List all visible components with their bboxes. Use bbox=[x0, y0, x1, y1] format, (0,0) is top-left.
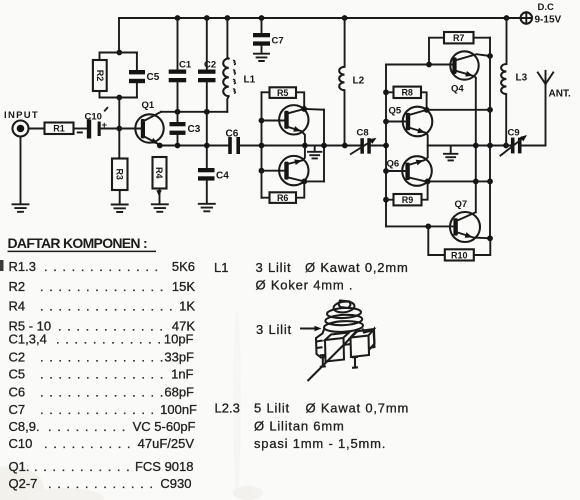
svg-text:.............: ............. bbox=[40, 402, 160, 417]
svg-text:Q6: Q6 bbox=[387, 159, 400, 170]
parts list row C5 bbox=[9, 367, 194, 382]
svg-text:47uF/25V: 47uF/25V bbox=[138, 436, 195, 451]
svg-text:.........: ......... bbox=[48, 419, 131, 434]
resistor R2 bbox=[93, 60, 107, 91]
svg-text:............: ............ bbox=[48, 476, 159, 491]
ground under C4 bbox=[199, 204, 215, 212]
svg-text:R4: R4 bbox=[154, 167, 164, 179]
svg-text:100nF: 100nF bbox=[160, 402, 197, 417]
svg-text:C9: C9 bbox=[508, 128, 520, 139]
svg-text:Q5: Q5 bbox=[389, 106, 402, 117]
capacitor C1 bbox=[169, 18, 192, 112]
wire C10/base node drop bbox=[118, 98, 120, 159]
resistor R8 bbox=[386, 87, 427, 110]
svg-text:C1: C1 bbox=[179, 60, 192, 71]
svg-text:..............: .............. bbox=[40, 367, 169, 382]
wire middle signal row bbox=[262, 145, 361, 147]
svg-text:C2: C2 bbox=[204, 60, 216, 71]
parts list row C1,3,4 bbox=[9, 332, 194, 347]
wire output row right block bbox=[428, 145, 511, 147]
svg-text:R10: R10 bbox=[451, 250, 468, 260]
transistor Q1 bbox=[135, 100, 163, 145]
parts list row C8,9 bbox=[9, 419, 196, 434]
ground under R3 bbox=[112, 205, 128, 213]
svg-text:Ø Kawat 0,7mm: Ø Kawat 0,7mm bbox=[306, 401, 410, 416]
wire right block left vertical bbox=[385, 65, 387, 227]
wire rail drop to R2/C5 node bbox=[118, 18, 120, 53]
note L2.3 winding bbox=[215, 401, 410, 416]
svg-text:..............: .............. bbox=[40, 385, 169, 400]
node signal row junctions left bbox=[157, 143, 210, 149]
svg-text:5K6: 5K6 bbox=[172, 259, 195, 274]
svg-text:R2: R2 bbox=[9, 279, 26, 294]
svg-text:Q7: Q7 bbox=[455, 199, 468, 210]
resistor R1 bbox=[45, 123, 74, 135]
capacitor C10 electrolytic bbox=[77, 108, 108, 139]
svg-text:15K: 15K bbox=[172, 279, 195, 294]
ground under C7 bbox=[254, 54, 269, 61]
wire Q4 base line bbox=[386, 64, 453, 66]
wire R3 to ground bbox=[119, 190, 121, 204]
svg-text:Q1: Q1 bbox=[142, 100, 155, 111]
note L2.3 diameter bbox=[254, 419, 345, 434]
svg-text:R3: R3 bbox=[115, 168, 125, 180]
svg-text:Ø Kawat 0,2mm: Ø Kawat 0,2mm bbox=[305, 260, 409, 275]
parts list row Q1 bbox=[9, 459, 194, 474]
svg-text:3 Lilit: 3 Lilit bbox=[256, 322, 292, 337]
note 3 Lilit pointer bbox=[256, 322, 322, 337]
svg-text:Q2-7: Q2-7 bbox=[9, 476, 38, 491]
wire jack stem to ground bbox=[20, 137, 22, 205]
resistor R10 bbox=[428, 226, 490, 260]
capacitor C8 variable bbox=[351, 128, 386, 155]
svg-text:C5: C5 bbox=[147, 72, 160, 83]
wire R2/C5 parallel loop bbox=[100, 53, 138, 98]
node right block left vertical junctions bbox=[383, 89, 389, 202]
svg-text:R9: R9 bbox=[402, 195, 414, 205]
wire Q1 collector row bbox=[161, 111, 227, 113]
ground right block bbox=[444, 146, 457, 161]
antenna ANT bbox=[538, 71, 571, 146]
note L2.3 spacing bbox=[254, 436, 386, 451]
wire Q1 emitter to signal row bbox=[159, 144, 161, 147]
svg-text:C8,9.: C8,9. bbox=[9, 419, 40, 434]
svg-text:spasi 1mm - 1,5mm.: spasi 1mm - 1,5mm. bbox=[254, 436, 386, 451]
svg-text:C6: C6 bbox=[226, 129, 239, 140]
svg-text:R2: R2 bbox=[95, 70, 105, 82]
svg-text:9-15V: 9-15V bbox=[535, 15, 562, 26]
svg-text:FCS 9018: FCS 9018 bbox=[135, 459, 194, 474]
inductor L1 bbox=[223, 18, 255, 112]
wire jack to R1 bbox=[29, 128, 45, 130]
svg-text:C7: C7 bbox=[9, 402, 26, 417]
svg-text:3 Lilit: 3 Lilit bbox=[256, 260, 292, 275]
node middle row junctions bbox=[302, 143, 348, 149]
terminal D.C supply bbox=[507, 2, 562, 26]
svg-text:..............: .............. bbox=[40, 279, 169, 294]
note L1 winding bbox=[214, 260, 409, 275]
parts list row R1.3 bbox=[9, 259, 196, 274]
svg-text:L1: L1 bbox=[214, 260, 228, 275]
capacitor C9 variable bbox=[501, 128, 546, 156]
transistor Q6 bbox=[386, 146, 490, 186]
svg-text:C930: C930 bbox=[160, 476, 191, 491]
parts list row C2 bbox=[9, 350, 195, 365]
svg-text:R7: R7 bbox=[453, 33, 465, 43]
node R2/C5 top and bottom junctions bbox=[116, 50, 122, 101]
wire main signal row left bbox=[160, 145, 228, 147]
note L1 koker bbox=[256, 278, 354, 293]
transistor Q2 bbox=[262, 105, 325, 145]
ground under R4 bbox=[152, 204, 168, 212]
resistor R6 bbox=[262, 181, 305, 203]
svg-text:Ø Koker 4mm .: Ø Koker 4mm . bbox=[256, 278, 354, 293]
parts list row C6 bbox=[9, 385, 195, 400]
svg-text:Q4: Q4 bbox=[451, 84, 464, 95]
svg-text:D.C: D.C bbox=[538, 2, 555, 13]
parts list row C7 bbox=[9, 402, 198, 417]
node left vertical junctions bbox=[259, 118, 265, 174]
capacitor C6 bbox=[226, 129, 262, 155]
inductor L3 bbox=[501, 18, 528, 146]
wire R4 to ground with blob bbox=[156, 189, 162, 205]
svg-text:C1,3,4: C1,3,4 bbox=[9, 332, 47, 347]
ground under input jack bbox=[13, 204, 29, 212]
scan smudges bbox=[0, 310, 263, 500]
svg-text:C3: C3 bbox=[188, 124, 201, 135]
svg-text:...........: ........... bbox=[34, 459, 135, 474]
parts list row R4 bbox=[9, 299, 196, 314]
svg-text:VC 5-60pF: VC 5-60pF bbox=[133, 419, 196, 434]
inductor L2 bbox=[339, 18, 364, 146]
wire R1 to C10 bbox=[74, 128, 87, 130]
heading DAFTAR KOMPONEN bbox=[8, 235, 157, 251]
parts list row R5-10 bbox=[9, 319, 196, 334]
svg-text:...............: ............... bbox=[40, 299, 178, 314]
ground middle block bbox=[308, 146, 321, 159]
wire top supply rail bbox=[119, 17, 521, 19]
svg-text:Q1.: Q1. bbox=[9, 459, 30, 474]
svg-text:1K: 1K bbox=[179, 299, 195, 314]
svg-text:33pF: 33pF bbox=[164, 350, 194, 365]
svg-text:............: ............ bbox=[56, 332, 167, 347]
svg-text:68pF: 68pF bbox=[164, 385, 194, 400]
svg-text:R6: R6 bbox=[277, 193, 289, 203]
wire C10 to Q1 base bbox=[101, 128, 142, 130]
capacitor C4 bbox=[198, 146, 229, 204]
node rail junction dots bbox=[175, 15, 510, 21]
node INPUT jack bbox=[4, 110, 39, 137]
svg-text:C7: C7 bbox=[272, 36, 284, 47]
svg-text:C10: C10 bbox=[9, 436, 33, 451]
svg-text:5 Lilit: 5 Lilit bbox=[254, 401, 290, 416]
svg-text:R1.3: R1.3 bbox=[9, 259, 36, 274]
node collector row junctions bbox=[175, 109, 210, 115]
wire right block big vertical bbox=[489, 38, 491, 239]
svg-text:..............: .............. bbox=[40, 350, 169, 365]
svg-text:ANT.: ANT. bbox=[549, 89, 571, 100]
node Q6 collector row junctions bbox=[425, 179, 493, 185]
svg-text:L1: L1 bbox=[244, 75, 256, 86]
wire middle block right vertical bbox=[323, 110, 325, 182]
wire Q7 base line bbox=[386, 224, 454, 230]
transistor Q3 bbox=[262, 146, 325, 185]
svg-text:C8: C8 bbox=[357, 128, 369, 139]
svg-text:DAFTAR KOMPONEN :: DAFTAR KOMPONEN : bbox=[8, 235, 148, 251]
svg-text:C5: C5 bbox=[9, 367, 26, 382]
svg-text:L2.3: L2.3 bbox=[215, 401, 240, 416]
capacitor C3 bbox=[170, 112, 201, 146]
svg-text:R1: R1 bbox=[53, 124, 65, 134]
svg-text:C10: C10 bbox=[85, 111, 102, 122]
parts list row C10 bbox=[9, 436, 195, 451]
svg-text:L3: L3 bbox=[516, 73, 528, 84]
resistor R3 bbox=[112, 159, 128, 191]
resistor R4 bbox=[153, 157, 167, 189]
parts list row R2 bbox=[9, 279, 196, 294]
transistor Q7 bbox=[450, 199, 493, 242]
resistor R5 bbox=[262, 87, 305, 109]
node output row junctions bbox=[473, 143, 509, 149]
svg-text:1nF: 1nF bbox=[171, 367, 193, 382]
transistor Q4 bbox=[450, 51, 493, 94]
scan mark left edge bbox=[0, 260, 4, 271]
wire middle block left vertical bbox=[261, 92, 263, 197]
capacitor C2 bbox=[198, 18, 216, 146]
node base wire junction bbox=[116, 126, 122, 132]
wire Q5 collector row bbox=[427, 107, 493, 113]
svg-text:R8: R8 bbox=[401, 88, 413, 98]
svg-text:R4: R4 bbox=[9, 299, 26, 314]
svg-text:C6: C6 bbox=[9, 385, 26, 400]
wire Q4 emitter vertical bbox=[475, 78, 477, 213]
svg-text:10pF: 10pF bbox=[164, 332, 194, 347]
resistor R7 bbox=[426, 32, 490, 67]
capacitor C5 bbox=[129, 70, 160, 83]
capacitor C7 bbox=[253, 18, 284, 54]
parts list row Q2-7 bbox=[9, 476, 192, 491]
transistor Q5 bbox=[386, 106, 432, 146]
svg-text:Ø Lilitan 6mm: Ø Lilitan 6mm bbox=[254, 419, 345, 434]
svg-text:C4: C4 bbox=[216, 171, 229, 182]
svg-text:.............: ............. bbox=[44, 259, 164, 274]
svg-text:L2: L2 bbox=[353, 76, 365, 87]
drawing coil former bbox=[308, 300, 375, 381]
svg-text:R5: R5 bbox=[277, 88, 289, 98]
resistor R9 bbox=[386, 181, 428, 205]
svg-text:INPUT: INPUT bbox=[4, 110, 39, 121]
svg-text:C2: C2 bbox=[9, 350, 26, 365]
svg-text:..........: .......... bbox=[44, 436, 136, 451]
